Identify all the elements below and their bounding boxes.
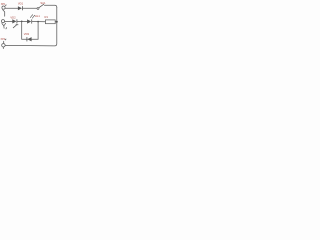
svg-text:R1: R1	[45, 15, 49, 19]
svg-text:XP1: XP1	[1, 2, 6, 6]
svg-text:VD3: VD3	[24, 32, 30, 36]
svg-text:SA1: SA1	[40, 1, 46, 5]
svg-text:XP2: XP2	[1, 38, 6, 41]
svg-text:VD1: VD1	[18, 1, 24, 5]
svg-text:HL1: HL1	[35, 14, 40, 18]
svg-text:VD2: VD2	[10, 16, 16, 20]
